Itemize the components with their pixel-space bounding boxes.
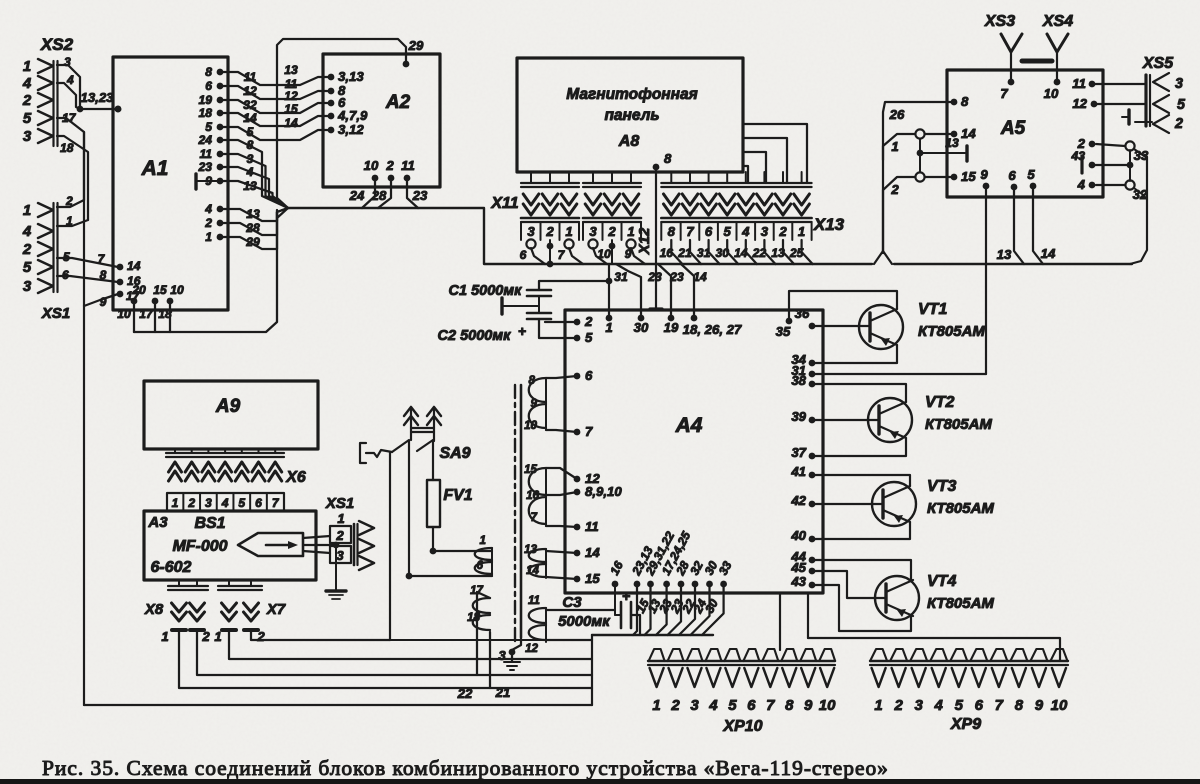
svg-text:10: 10 xyxy=(170,283,184,297)
wire junction to A1 pin 13,23 xyxy=(80,108,118,110)
wire XS1 speaker ground xyxy=(335,545,337,591)
svg-text:12: 12 xyxy=(525,642,538,655)
svg-text:2: 2 xyxy=(778,224,787,239)
wire XS1 pin1 xyxy=(57,220,88,226)
svg-text:8: 8 xyxy=(205,65,212,79)
connector XP9 xyxy=(870,649,887,661)
svg-text:3,13: 3,13 xyxy=(338,69,364,84)
wire VT3 emitter to A4.40 xyxy=(812,522,910,539)
wire fan A1 to harness xyxy=(220,140,288,208)
svg-text:12: 12 xyxy=(284,89,298,103)
wire A8 right side to X13 stair 1 xyxy=(743,124,807,183)
svg-text:14: 14 xyxy=(585,545,600,560)
svg-text:4: 4 xyxy=(22,75,32,92)
svg-text:С1 5000мк: С1 5000мк xyxy=(449,283,523,299)
pin A1.18 xyxy=(217,110,224,117)
svg-text:BS1: BS1 xyxy=(194,515,225,532)
svg-text:X8: X8 xyxy=(144,601,164,618)
pin A1.14 xyxy=(117,264,124,271)
svg-text:1: 1 xyxy=(565,224,572,239)
svg-text:10: 10 xyxy=(117,307,131,321)
svg-text:SA9: SA9 xyxy=(439,445,470,462)
wire winding to A4 pin7 xyxy=(546,430,577,432)
wire XS1 pin6 to A1 pin16 xyxy=(57,276,118,282)
svg-text:VT4: VT4 xyxy=(927,573,956,590)
wire primary 1 to FV1 node xyxy=(433,550,492,552)
svg-text:X13: X13 xyxy=(813,215,845,234)
wire fan A1 to A2 xyxy=(220,72,331,85)
svg-text:10: 10 xyxy=(1051,697,1068,714)
svg-text:3: 3 xyxy=(915,697,924,714)
wire winding to A4 pin12 xyxy=(546,468,577,479)
svg-text:8: 8 xyxy=(1015,697,1024,714)
connector X11 group B (pins 3 2 1) xyxy=(592,172,594,183)
svg-text:А1: А1 xyxy=(141,157,169,180)
wire A5 pin5 to harness (14) xyxy=(1033,186,1043,264)
svg-text:FV1: FV1 xyxy=(443,487,472,504)
wire common to A1 pin17 xyxy=(84,294,118,306)
pin A1.8 xyxy=(217,69,224,76)
pin A1.5 xyxy=(217,124,224,131)
svg-text:1: 1 xyxy=(23,202,31,219)
wire winding 12 right xyxy=(546,639,592,641)
speaker arrow xyxy=(266,544,293,547)
wires speaker to XS1 xyxy=(303,536,330,538)
block A1 xyxy=(113,57,228,310)
svg-text:39: 39 xyxy=(791,409,806,424)
svg-text:23: 23 xyxy=(412,188,428,203)
transformer screen line xyxy=(520,385,523,637)
svg-text:2: 2 xyxy=(1174,116,1183,132)
svg-text:11: 11 xyxy=(244,70,257,84)
wire X13 pin drop 14 xyxy=(746,240,757,264)
svg-text:15: 15 xyxy=(284,102,298,116)
svg-text:5000мк: 5000мк xyxy=(558,614,611,630)
pin A1.4 xyxy=(217,206,224,213)
svg-text:А2: А2 xyxy=(385,92,411,113)
pin A5.10 xyxy=(1054,79,1061,86)
svg-text:5: 5 xyxy=(1177,97,1186,113)
svg-text:4,7,9: 4,7,9 xyxy=(337,108,368,123)
svg-text:31: 31 xyxy=(697,246,711,260)
svg-text:14: 14 xyxy=(284,116,298,130)
switch contact left xyxy=(392,440,409,452)
wire switch left pole down to rail xyxy=(389,452,391,640)
block A3 xyxy=(144,511,316,580)
svg-text:1: 1 xyxy=(891,139,898,154)
wire X13 pin drop 16 xyxy=(671,240,682,264)
svg-text:21: 21 xyxy=(677,246,692,260)
svg-text:19: 19 xyxy=(199,93,213,107)
svg-text:1: 1 xyxy=(205,230,212,244)
winding 17-18 primary xyxy=(473,598,490,630)
scan edge bar xyxy=(0,779,1200,784)
svg-text:3: 3 xyxy=(247,152,254,166)
svg-text:XS4: XS4 xyxy=(1042,13,1073,30)
svg-text:1: 1 xyxy=(605,320,612,335)
svg-text:2: 2 xyxy=(256,629,265,644)
pin A1.17 xyxy=(117,291,124,298)
chassis mark near XS5 xyxy=(1127,110,1130,124)
X6 numbered cells xyxy=(167,493,284,511)
svg-text:5: 5 xyxy=(728,697,737,714)
wire C1 top to A4 pin1 xyxy=(539,281,609,290)
svg-text:X11: X11 xyxy=(490,195,518,212)
svg-text:13: 13 xyxy=(771,246,785,260)
svg-text:18: 18 xyxy=(158,307,172,321)
pin A1.11 xyxy=(217,151,224,158)
svg-text:5: 5 xyxy=(585,330,593,345)
svg-text:VT3: VT3 xyxy=(927,478,956,495)
svg-text:7: 7 xyxy=(531,511,538,524)
svg-text:28: 28 xyxy=(371,188,387,203)
wire XS1 pin2 xyxy=(57,200,84,207)
wire VT3 collector to A4.41 xyxy=(812,475,910,486)
svg-text:панель: панель xyxy=(604,107,659,124)
svg-text:40: 40 xyxy=(790,528,806,543)
connector XP10 xyxy=(649,649,665,661)
svg-text:1: 1 xyxy=(214,629,221,644)
connector X6 xyxy=(174,449,176,453)
jack circle 32 xyxy=(1125,180,1134,189)
transistor VT1 KT805AM xyxy=(859,305,903,349)
svg-text:8: 8 xyxy=(961,94,969,109)
vertical collector of bottom rails xyxy=(591,635,593,705)
svg-text:4: 4 xyxy=(741,224,750,239)
svg-text:3: 3 xyxy=(761,224,769,239)
svg-text:32: 32 xyxy=(243,98,257,112)
svg-text:6: 6 xyxy=(747,697,756,714)
svg-text:14: 14 xyxy=(693,270,707,284)
svg-text:9: 9 xyxy=(531,397,538,410)
wire left pole to winding tap 6 xyxy=(408,441,410,576)
svg-text:С2 5000мк: С2 5000мк xyxy=(438,328,512,344)
block A9 xyxy=(144,381,318,449)
svg-text:6: 6 xyxy=(1008,168,1016,183)
svg-text:1: 1 xyxy=(874,697,882,714)
transistor VT2 KT805AM xyxy=(868,398,912,442)
switch contact right xyxy=(417,440,433,451)
svg-text:2: 2 xyxy=(607,224,616,239)
svg-text:10: 10 xyxy=(524,419,537,432)
svg-text:4: 4 xyxy=(246,165,254,179)
pin A1.24 xyxy=(217,137,224,144)
wire C2 top to A4 pin2 xyxy=(545,321,577,323)
svg-text:3: 3 xyxy=(336,548,344,563)
svg-text:14: 14 xyxy=(734,246,748,260)
svg-text:18: 18 xyxy=(199,106,213,120)
connector X11 group A (pins 3 2 1) xyxy=(530,172,532,183)
pin A2 left 6 xyxy=(328,100,335,107)
wire X13 pin drop 31 xyxy=(709,240,720,264)
wire bottom common rail xyxy=(84,704,592,706)
svg-text:5: 5 xyxy=(247,125,254,139)
pin A1.19 xyxy=(217,97,224,104)
svg-text:2: 2 xyxy=(670,697,680,714)
svg-text:9: 9 xyxy=(100,295,107,309)
svg-text:+: + xyxy=(518,323,526,339)
loudspeaker BS1 horn xyxy=(238,533,303,556)
svg-text:10: 10 xyxy=(364,158,379,173)
wire A8 right side to X13 stair 2 xyxy=(743,138,787,183)
wire VT2 base from A4.39 xyxy=(812,419,879,421)
svg-text:X7: X7 xyxy=(266,601,286,618)
fan bus above XP10 xyxy=(592,634,713,636)
pin A4.5 xyxy=(574,335,581,342)
fuse FV1 xyxy=(432,441,434,480)
screen ground 3 xyxy=(512,637,521,661)
svg-text:1: 1 xyxy=(337,511,344,526)
wire X13 pin drop 30 xyxy=(727,240,738,264)
svg-text:18, 26, 27: 18, 26, 27 xyxy=(683,322,742,337)
jack circle pair at A5 xyxy=(915,129,924,138)
svg-text:10: 10 xyxy=(819,697,836,714)
svg-text:3: 3 xyxy=(589,224,597,239)
svg-text:15: 15 xyxy=(961,169,976,184)
svg-text:1: 1 xyxy=(172,496,179,510)
svg-text:3: 3 xyxy=(527,224,535,239)
wire XS2 pin17 down xyxy=(57,118,84,200)
svg-text:11: 11 xyxy=(528,594,540,607)
svg-text:1: 1 xyxy=(161,629,168,644)
svg-text:20: 20 xyxy=(131,283,146,297)
pin A5.12 xyxy=(1091,101,1098,108)
svg-text:12: 12 xyxy=(1072,96,1087,111)
svg-text:22: 22 xyxy=(752,246,767,260)
svg-text:2: 2 xyxy=(385,158,394,173)
pin A4.19 top xyxy=(668,315,675,322)
svg-text:9: 9 xyxy=(1035,697,1044,714)
pin A2 left 3,13 xyxy=(328,74,335,81)
wire drops from harness to A4 pins 30 19 18 xyxy=(616,264,641,318)
svg-text:8: 8 xyxy=(529,374,536,387)
wire A4.31 to A5 pin9 line xyxy=(812,373,986,375)
wire A4 bottom to XP9 rail xyxy=(807,593,809,638)
svg-text:А9: А9 xyxy=(215,396,241,417)
svg-text:13: 13 xyxy=(997,247,1012,262)
winding 8-9-10 xyxy=(529,378,546,428)
svg-text:29: 29 xyxy=(408,38,424,53)
wire winding to A4 pin14 xyxy=(546,551,577,553)
wire primary 6 tap xyxy=(409,575,492,577)
wire fan from A4 bottom pins xyxy=(633,584,637,635)
svg-text:13: 13 xyxy=(246,207,260,221)
svg-text:А8: А8 xyxy=(618,133,640,150)
svg-text:30: 30 xyxy=(715,246,729,260)
svg-text:6: 6 xyxy=(520,248,527,262)
harness bus upper xyxy=(288,208,872,264)
jack circle X11b.1 xyxy=(626,239,635,248)
pin A2 left 8 xyxy=(328,88,335,95)
svg-text:ХР9: ХР9 xyxy=(950,716,981,733)
wire VT1 collector loop to A4.36 xyxy=(789,291,897,321)
wire A4 bottom to XP10 xyxy=(779,593,781,650)
svg-text:6: 6 xyxy=(975,697,984,714)
svg-text:3: 3 xyxy=(498,648,506,663)
svg-text:9: 9 xyxy=(980,167,988,182)
svg-text:7: 7 xyxy=(766,697,775,714)
svg-text:24: 24 xyxy=(198,133,213,147)
svg-text:МF-000: МF-000 xyxy=(172,538,227,555)
pin A1.1 xyxy=(217,234,224,241)
chassis bar A5 pin13 xyxy=(965,146,968,161)
harness merge symbol xyxy=(277,198,288,218)
block A5 xyxy=(947,70,1103,197)
svg-text:14: 14 xyxy=(127,259,141,273)
wire ground bus left vertical xyxy=(83,132,85,705)
svg-text:5: 5 xyxy=(724,224,732,239)
svg-text:7: 7 xyxy=(686,224,694,239)
connector X8 xyxy=(178,580,180,586)
bracket terminal at switch xyxy=(360,443,366,463)
wire A5 pin14 left (1) xyxy=(883,134,915,160)
jack circle 33 xyxy=(1125,141,1134,150)
svg-text:12: 12 xyxy=(243,84,257,98)
svg-text:24: 24 xyxy=(349,188,365,203)
svg-text:VT2: VT2 xyxy=(925,394,954,411)
pin A1.2 xyxy=(217,220,224,227)
wire winding to A4 pin15 xyxy=(546,577,577,579)
svg-text:7: 7 xyxy=(1000,86,1008,101)
svg-text:4: 4 xyxy=(708,697,718,714)
node junction XS2-A1 xyxy=(77,106,84,113)
rail to XP9 xyxy=(808,638,1060,661)
pin A4.2 xyxy=(574,319,581,326)
svg-text:8: 8 xyxy=(247,138,254,152)
wire VT4 base from A4.45 xyxy=(812,571,886,598)
svg-text:3: 3 xyxy=(23,128,32,145)
svg-text:11: 11 xyxy=(401,158,415,173)
pin A5.8 xyxy=(951,99,958,106)
svg-text:XS2: XS2 xyxy=(40,35,74,54)
wire A2 pin7 to harness xyxy=(277,39,406,208)
svg-text:11: 11 xyxy=(199,147,212,161)
svg-text:Рис. 35. Схема соединений блок: Рис. 35. Схема соединений блоков комбини… xyxy=(42,756,889,780)
svg-text:23: 23 xyxy=(647,270,662,284)
svg-text:14: 14 xyxy=(526,564,539,577)
svg-text:6: 6 xyxy=(477,559,484,572)
wire X11b drops xyxy=(593,248,607,264)
svg-text:16: 16 xyxy=(526,489,539,502)
svg-text:9: 9 xyxy=(804,697,813,714)
svg-text:1: 1 xyxy=(627,224,634,239)
svg-text:38: 38 xyxy=(791,373,806,388)
svg-text:2: 2 xyxy=(335,528,344,543)
block A2 xyxy=(323,54,440,187)
svg-text:8: 8 xyxy=(785,697,794,714)
svg-text:6: 6 xyxy=(585,368,593,383)
svg-text:2: 2 xyxy=(890,182,899,197)
connector X7 xyxy=(228,580,230,586)
winding 11-12 lower xyxy=(529,608,546,640)
svg-text:2: 2 xyxy=(893,697,903,714)
svg-text:XS1: XS1 xyxy=(325,495,354,512)
pin A5.15 xyxy=(951,174,958,181)
pin A4.1 top xyxy=(606,315,613,322)
wire VT2 emitter to A4.37 xyxy=(812,438,906,456)
wire winding mid tap to A4 pin 8,9,10 xyxy=(546,492,577,495)
svg-text:28: 28 xyxy=(245,221,260,235)
wire A5 pin8 left (26) xyxy=(883,102,954,253)
svg-text:2: 2 xyxy=(204,216,212,230)
jack circle X11b.3 xyxy=(588,239,597,248)
svg-text:10: 10 xyxy=(1044,86,1059,101)
svg-text:А4: А4 xyxy=(675,414,703,437)
block A8 tape panel xyxy=(517,58,743,172)
svg-text:23: 23 xyxy=(669,270,684,284)
transistor VT4 KT805AM xyxy=(875,576,919,620)
wire C1-C2 middle node xyxy=(538,296,540,313)
svg-text:XS1: XS1 xyxy=(41,305,70,322)
pin A1.23 xyxy=(217,164,224,171)
wire X13 pin drop 22 xyxy=(764,240,775,264)
transformer core dash line xyxy=(514,385,516,645)
svg-text:15: 15 xyxy=(524,463,537,476)
pin A4.18,26,27 top xyxy=(691,315,698,322)
svg-text:14: 14 xyxy=(961,126,976,141)
svg-text:2: 2 xyxy=(201,629,210,644)
svg-text:VT1: VT1 xyxy=(918,301,947,318)
pin A5.14 xyxy=(951,131,958,138)
svg-text:6: 6 xyxy=(255,496,262,510)
wire VT4 collector to A4.44 xyxy=(812,560,911,580)
svg-text:5: 5 xyxy=(238,496,245,510)
pins A4 right side xyxy=(809,360,816,367)
svg-text:43: 43 xyxy=(790,574,806,589)
svg-text:4: 4 xyxy=(204,202,212,216)
wire winding 11 to C3 node xyxy=(546,609,615,611)
svg-text:КТ805АМ: КТ805АМ xyxy=(918,323,985,340)
ground bar between antennas xyxy=(1022,59,1052,64)
winding 1-6 primary xyxy=(475,548,492,574)
svg-text:2: 2 xyxy=(187,496,195,510)
svg-text:6-602: 6-602 xyxy=(151,559,192,576)
wire A2 pin11 down xyxy=(407,178,418,208)
jack circle X11a.3 xyxy=(526,239,535,248)
wire XS1 pin5 to A1 pin14 xyxy=(57,258,118,267)
chassis bar A5 pin43 xyxy=(1080,158,1083,173)
svg-text:15: 15 xyxy=(153,283,167,297)
svg-text:3,12: 3,12 xyxy=(338,122,364,137)
svg-text:1: 1 xyxy=(798,224,805,239)
pin A4 left pins xyxy=(574,373,581,380)
pin A5.43 xyxy=(1089,162,1096,169)
svg-text:41: 41 xyxy=(790,464,806,479)
svg-text:5: 5 xyxy=(23,259,32,276)
svg-text:2: 2 xyxy=(22,241,32,258)
svg-text:С3: С3 xyxy=(562,594,582,611)
wire X13 pin drop 13 xyxy=(783,240,794,264)
harness gather below A5 xyxy=(874,251,892,264)
connector X13 (pins 8..1) xyxy=(670,172,672,183)
wire winding18 down (21) xyxy=(489,632,491,688)
pin A4.30 top xyxy=(638,315,645,322)
svg-text:37: 37 xyxy=(791,445,806,460)
wire X8.1 down right rail xyxy=(179,630,592,688)
svg-text:ХР10: ХР10 xyxy=(722,718,762,735)
svg-text:16: 16 xyxy=(660,246,674,260)
wire X7.2 rail xyxy=(251,630,390,640)
svg-text:3: 3 xyxy=(690,697,699,714)
svg-text:+: + xyxy=(622,589,631,605)
svg-text:17: 17 xyxy=(139,307,154,321)
svg-text:13: 13 xyxy=(945,136,959,150)
pin A1.16 xyxy=(117,279,124,286)
wire X8.2 rail xyxy=(197,630,592,675)
wire A2 pin2 down xyxy=(378,178,391,208)
wire A1 bottom pin20 down xyxy=(133,301,135,332)
svg-text:25: 25 xyxy=(789,246,804,260)
